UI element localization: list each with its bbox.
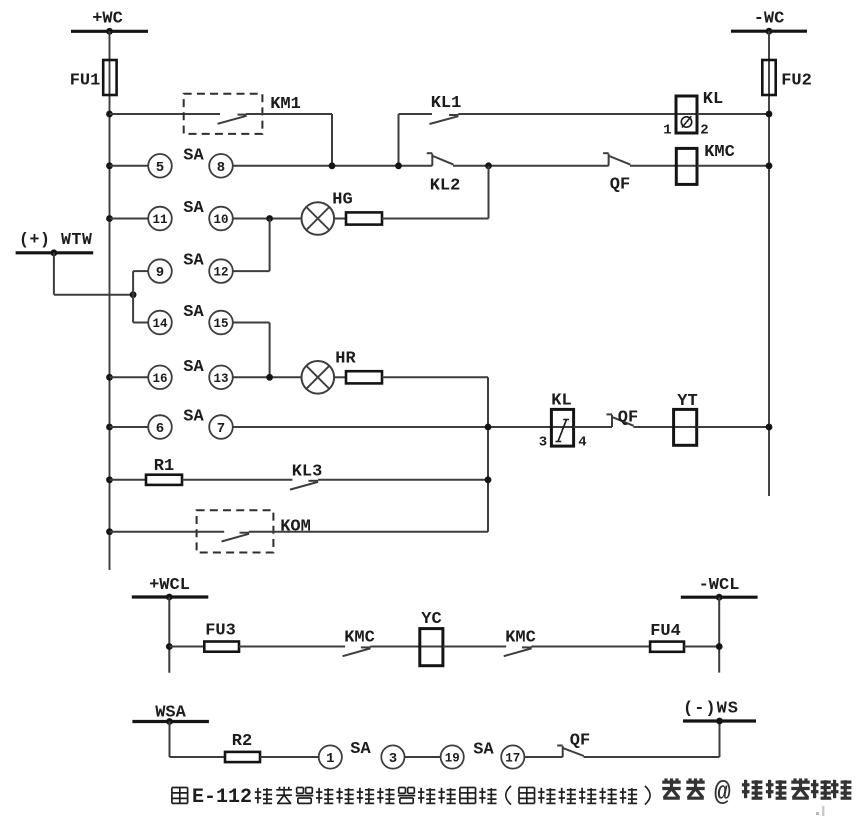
terminal circle 14 xyxy=(148,311,172,335)
svg-text:QF: QF xyxy=(610,176,630,195)
label KMC coil xyxy=(704,143,735,162)
contact KOM (NO blade) xyxy=(222,533,250,542)
svg-text:KL: KL xyxy=(703,90,723,109)
contactor coil KMC xyxy=(676,148,697,184)
label KM1 xyxy=(270,95,301,114)
label YC xyxy=(421,610,441,629)
svg-text:-WC: -WC xyxy=(754,10,785,29)
label HR xyxy=(335,350,356,369)
junction dot left bus row G xyxy=(106,424,113,431)
wire row F bus to terminal 16 xyxy=(110,376,149,378)
terminal circle 3 xyxy=(381,745,404,768)
wire row J FU4 to -WCL drop xyxy=(684,646,719,648)
wire row G YT to right bus xyxy=(697,426,769,428)
wire row C bus to terminal 11 xyxy=(110,218,149,220)
wire row K terminal 17 to QF contact xyxy=(524,756,562,758)
label KL2 xyxy=(430,177,461,196)
svg-text:11: 11 xyxy=(152,213,167,227)
pin 4 label xyxy=(578,435,586,451)
svg-text:KMC: KMC xyxy=(704,143,735,162)
bus +WC xyxy=(71,30,148,33)
svg-text:8: 8 xyxy=(217,160,225,176)
wire row J to FU3 xyxy=(169,646,204,648)
junction dot row J left xyxy=(166,643,173,650)
wire -WCL drop xyxy=(718,597,720,672)
svg-text:(+) WTW: (+) WTW xyxy=(19,230,93,249)
fuse FU3 xyxy=(204,642,239,652)
svg-text:QF: QF xyxy=(570,732,590,751)
label KL coil 3-4 xyxy=(551,392,571,411)
contact KL2 (NC style) xyxy=(427,153,454,166)
terminal circle 1 xyxy=(319,745,342,768)
fuse FU2 xyxy=(762,60,775,95)
terminal circle 10 xyxy=(209,207,233,231)
node -WC bus label xyxy=(754,10,785,29)
lamp HG xyxy=(302,202,335,235)
svg-text:SA: SA xyxy=(183,146,204,165)
svg-text:@: @ xyxy=(714,778,731,809)
contact KL1 (NO blade) xyxy=(430,115,459,124)
junction dot right bus row G xyxy=(766,424,773,431)
terminal circle 9 xyxy=(148,259,172,283)
wire right vertical bus xyxy=(768,31,770,496)
svg-text:FU2: FU2 xyxy=(781,72,812,91)
svg-text:FU1: FU1 xyxy=(70,72,101,91)
wire row A KL1 to KL coil xyxy=(458,113,697,115)
junction dot row H x488 xyxy=(485,476,492,483)
pin 3 label xyxy=(539,435,547,451)
node (-)WS label xyxy=(683,700,739,719)
svg-text:1: 1 xyxy=(326,751,334,767)
label SA row E xyxy=(183,303,204,322)
node -WCL label xyxy=(699,576,740,595)
label HG xyxy=(332,191,352,210)
svg-text:-WCL: -WCL xyxy=(699,576,740,595)
resistor (HG series) xyxy=(346,212,382,224)
wire row E branch to terminal 14 xyxy=(133,322,148,324)
wire lamp HG to resistor xyxy=(334,218,346,220)
label QF row B xyxy=(610,176,630,195)
svg-text:16: 16 xyxy=(152,372,167,386)
contact KMC row J right (NO blade) xyxy=(504,647,532,656)
wire row A KL coil to right bus xyxy=(697,113,769,115)
label KL1 xyxy=(431,94,462,113)
wire lamp HR to resistor xyxy=(334,376,346,378)
svg-text:3: 3 xyxy=(539,435,547,451)
label QF row K xyxy=(570,732,590,751)
svg-text:+WC: +WC xyxy=(92,10,123,29)
junction dot row B x488.5 (HG branch) xyxy=(485,162,492,169)
svg-text:YC: YC xyxy=(421,610,441,629)
svg-text:15: 15 xyxy=(213,317,228,331)
svg-text:FU4: FU4 xyxy=(650,622,681,641)
label SA row B xyxy=(183,146,204,165)
wire row B terminal 8 to KL2 contact xyxy=(233,165,432,167)
svg-text:4: 4 xyxy=(578,435,586,451)
svg-text:17: 17 xyxy=(505,752,520,766)
svg-text:(-)WS: (-)WS xyxy=(683,700,739,719)
junction dot right bus row B xyxy=(766,162,773,169)
svg-text:E-112: E-112 xyxy=(192,786,252,809)
svg-text:12: 12 xyxy=(213,266,228,280)
svg-text:R1: R1 xyxy=(154,457,174,476)
svg-text:HR: HR xyxy=(335,350,356,369)
contact QF row G (NC style) xyxy=(607,414,634,427)
junction dot WSA bus xyxy=(166,718,173,725)
relay coil KL (pins 1-2) xyxy=(676,96,697,133)
label FU2 xyxy=(781,72,812,91)
label KOM xyxy=(280,518,311,537)
terminal circle 7 xyxy=(209,415,233,439)
stray mark bottom right xyxy=(816,806,824,816)
label FU4 xyxy=(650,622,681,641)
label KMC row J right xyxy=(505,629,536,648)
terminal circle 13 xyxy=(209,366,233,390)
junction dot +WC / left bus xyxy=(106,28,113,35)
wire row D branch to terminal 9 xyxy=(133,270,148,272)
label YT xyxy=(677,392,697,411)
wire KL1 branch riser x398.5 xyxy=(398,114,400,166)
wire row A from KM1 to corner x332 xyxy=(246,113,332,115)
wire row I bus to KOM contact xyxy=(110,531,225,533)
wire row K R2 to terminal 1 xyxy=(260,756,319,758)
wire row B bus to terminal 5 xyxy=(110,165,149,167)
junction dot WTW branch x133 xyxy=(130,291,137,298)
junction dot -WC / right bus xyxy=(766,28,773,35)
bus -WCL xyxy=(681,596,758,599)
contact KL3 (NO blade) xyxy=(290,481,318,490)
wire row H KL3 to riser x488 xyxy=(318,479,488,481)
label SA row D xyxy=(183,252,204,271)
caption 图E-112 灯光监视的断路器控制回路（电磁操动机构） xyxy=(172,786,650,809)
fuse FU1 xyxy=(103,60,116,95)
svg-text:10: 10 xyxy=(213,213,228,227)
wire row H R1 to KL3 contact xyxy=(182,479,292,481)
wire row B KL2 to QF contact xyxy=(453,165,609,167)
terminal circle 19 xyxy=(441,745,464,768)
wire row D terminal 12 to corner x269.6 xyxy=(233,270,270,272)
terminal circle 5 xyxy=(148,154,172,178)
bus (+) WTW xyxy=(16,251,94,254)
wire row E terminal 15 to corner x269.6 xyxy=(233,322,270,324)
wire row J YC to KMC contact 2 xyxy=(443,646,506,648)
svg-text:SA: SA xyxy=(183,252,204,271)
junction dot left bus row C xyxy=(106,215,113,222)
svg-text:YT: YT xyxy=(677,392,697,411)
wire WSA drop to row K xyxy=(170,722,226,758)
terminal circle 16 xyxy=(148,366,172,390)
label R1 xyxy=(154,457,174,476)
svg-text:3: 3 xyxy=(389,751,397,767)
wire WTW drop xyxy=(54,253,133,295)
wire row K QF to (-)WS bus xyxy=(584,721,720,757)
label KL xyxy=(703,90,723,109)
junction dot -WCL bus xyxy=(716,594,723,601)
svg-text:5: 5 xyxy=(156,160,164,176)
junction dot +WCL bus xyxy=(166,594,173,601)
contact KMC row J left (NO blade) xyxy=(343,647,371,656)
resistor R2 xyxy=(225,752,260,762)
junction dot row J right xyxy=(716,643,723,650)
resistor (HR series) xyxy=(346,371,382,383)
watermark 头条 @哒哒与达达 xyxy=(662,778,851,809)
label SA row K right xyxy=(473,741,494,760)
contact QF row K (NC style) xyxy=(557,746,584,758)
svg-text:R2: R2 xyxy=(232,732,252,751)
svg-text:2: 2 xyxy=(700,123,708,139)
svg-text:KOM: KOM xyxy=(280,518,311,537)
lamp HR xyxy=(302,361,335,394)
terminal circle 11 xyxy=(148,207,172,231)
wire row K terminal 3 to 19 xyxy=(405,756,441,758)
svg-text:SA: SA xyxy=(183,358,204,377)
wire row A from left bus to KM1 contact xyxy=(110,113,221,115)
node WSA label xyxy=(155,704,186,723)
relay coil KL (pins 3-4) xyxy=(551,409,573,446)
wire corner x332 down to row B xyxy=(331,114,333,166)
wire row I KOM to riser x488 xyxy=(249,531,488,533)
fuse FU4 xyxy=(650,642,684,652)
svg-text:9: 9 xyxy=(156,265,164,281)
label FU3 xyxy=(205,622,236,641)
wire branch riser x133 rows D-E xyxy=(132,271,134,322)
contact KM1 (NO blade) xyxy=(218,115,247,124)
wire row J KMC2 to FU4 xyxy=(531,646,650,648)
wire row C resistor to riser x488.5 xyxy=(382,218,489,220)
svg-text:19: 19 xyxy=(445,752,460,766)
terminal circle 17 xyxy=(501,745,524,768)
wire left vertical bus xyxy=(109,31,111,570)
terminal circle 12 xyxy=(209,259,233,283)
pin 1 label xyxy=(663,123,671,139)
node +WC bus label xyxy=(92,10,123,29)
svg-text:QF: QF xyxy=(618,409,638,428)
junction dot left bus row I xyxy=(106,528,113,535)
svg-text:SA: SA xyxy=(183,199,204,218)
svg-text:KM1: KM1 xyxy=(270,95,301,114)
terminal circle 15 xyxy=(209,311,233,335)
wire +WCL drop xyxy=(168,597,170,673)
wire corner x269.6 down to row F xyxy=(269,323,271,378)
wire row F resistor to riser x488 xyxy=(382,376,488,378)
junction dot left bus row B xyxy=(106,162,113,169)
junction dot row F x269.6 xyxy=(266,374,273,381)
pin 2 label xyxy=(700,123,708,139)
wire row H bus to R1 xyxy=(110,479,147,481)
junction dot left bus row A xyxy=(106,111,113,118)
label SA row C xyxy=(183,199,204,218)
label KL3 xyxy=(292,463,323,482)
junction dot row B x332 xyxy=(329,162,336,169)
label KMC row J left xyxy=(344,629,375,648)
svg-text:HG: HG xyxy=(332,191,352,210)
label SA row G xyxy=(183,408,204,427)
svg-text:6: 6 xyxy=(156,421,164,437)
closing coil YC xyxy=(420,629,443,666)
wire row A from riser to KL1 contact xyxy=(399,113,433,115)
resistor R1 xyxy=(146,475,182,485)
svg-text:14: 14 xyxy=(152,317,168,331)
terminal circle 6 xyxy=(148,415,172,439)
bus -WC xyxy=(731,30,807,33)
label SA row F xyxy=(183,358,204,377)
junction dot right bus row A xyxy=(766,111,773,118)
label SA row K left xyxy=(350,740,371,759)
junction dot left bus row F xyxy=(106,374,113,381)
svg-text:KL2: KL2 xyxy=(430,177,461,196)
svg-text:7: 7 xyxy=(217,421,225,437)
trip coil YT xyxy=(674,409,697,445)
wire row G terminal 7 to KL coil 3-4 xyxy=(233,426,574,428)
junction dot left bus row H xyxy=(106,476,113,483)
junction dot row C x269.6 xyxy=(266,215,273,222)
svg-text:SA: SA xyxy=(183,303,204,322)
label R2 xyxy=(232,732,252,751)
node +WCL label xyxy=(149,576,190,595)
bus +WCL xyxy=(132,595,209,598)
wire row B QF to KMC coil xyxy=(630,165,697,167)
bus (-)WS xyxy=(683,719,756,722)
wire row G QF to YT coil xyxy=(634,426,697,428)
svg-text:KL3: KL3 xyxy=(292,463,323,482)
svg-text:KMC: KMC xyxy=(505,629,536,648)
wire row F terminal 13 to lamp HR xyxy=(233,376,302,378)
svg-text:KL1: KL1 xyxy=(431,94,462,113)
label QF row G xyxy=(618,409,638,428)
junction dot row G x488 xyxy=(485,424,492,431)
junction dot WTW bus xyxy=(51,249,58,256)
contactor KM1 dashed enclosure xyxy=(184,94,263,134)
wire row G bus to terminal 6 xyxy=(110,426,149,428)
wire row B KMC coil to right bus xyxy=(697,165,769,167)
wire corner x269.6 up to row C xyxy=(269,219,271,272)
wire riser x488.5 row C to row B xyxy=(488,166,490,219)
wire row C terminal 10 to lamp HG xyxy=(233,218,302,220)
wire riser x488 rows F-I xyxy=(487,377,489,531)
junction dot row B x398.5 xyxy=(395,162,402,169)
contact QF row B (NC style) xyxy=(603,153,630,166)
svg-text:SA: SA xyxy=(473,741,494,760)
svg-text:13: 13 xyxy=(213,372,228,386)
bus WSA xyxy=(132,720,209,723)
contactor KOM dashed enclosure xyxy=(197,510,274,552)
label FU1 xyxy=(70,72,101,91)
wire row J FU3 to KMC contact 1 xyxy=(239,646,345,648)
svg-text:KMC: KMC xyxy=(344,629,375,648)
svg-text:KL: KL xyxy=(551,392,571,411)
terminal circle 8 xyxy=(209,154,233,178)
svg-text:1: 1 xyxy=(663,123,671,139)
wire row J KMC1 to YC coil xyxy=(370,646,443,648)
junction dot (-)WS bus xyxy=(716,718,723,725)
wire row G KL coil to QF contact xyxy=(574,426,612,428)
svg-text:SA: SA xyxy=(350,740,371,759)
svg-text:FU3: FU3 xyxy=(205,622,236,641)
svg-text:+WCL: +WCL xyxy=(149,576,190,595)
node (+) WTW label xyxy=(19,230,93,249)
svg-text:SA: SA xyxy=(183,408,204,427)
